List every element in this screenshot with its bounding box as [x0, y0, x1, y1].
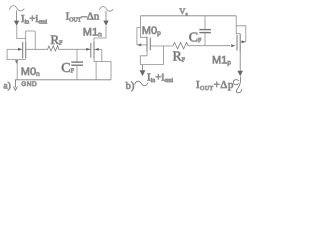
svg-text:RF: RF	[173, 48, 186, 63]
capacitor CF tap from rail (b)	[204, 16, 206, 29]
M0n bulk/source loop wire	[7, 49, 26, 59]
svg-text:Iin+iemi: Iin+iemi	[147, 71, 174, 84]
svg-text:M0n: M0n	[21, 66, 40, 78]
resistor RF (a) zigzag	[48, 46, 59, 51]
wire M0p drain down to input node	[140, 51, 147, 64]
AC source squiggle (input a)	[9, 6, 24, 11]
transistor M1n gate bar	[90, 43, 92, 58]
supply rail Vs (b)	[141, 15, 237, 17]
AC script squiggle below output arrow (b)	[236, 77, 242, 93]
transistor M0p channel bar	[146, 37, 148, 52]
svg-text:IOUT+Δp: IOUT+Δp	[196, 79, 234, 92]
AC squiggle above output arrow (a)	[99, 7, 113, 12]
M0n bulk lead with NMOS arrow	[7, 48, 22, 50]
svg-text:RF: RF	[50, 32, 63, 47]
output current arrow IOUT-dn (a)	[105, 11, 107, 21]
wire gate bus M0n to RF	[26, 48, 48, 50]
transistor M1p channel bar	[239, 34, 241, 52]
M1p gate arrow (PMOS, pointing right)	[231, 44, 235, 47]
input node wire (b)	[140, 64, 163, 66]
svg-text:Vs: Vs	[179, 6, 187, 17]
svg-text:M1p: M1p	[212, 55, 231, 67]
capacitor CF bottom lead to gate bus (b)	[204, 33, 206, 46]
M1p bulk lead with PMOS arrow pointing right	[241, 41, 246, 43]
ground arrow symbol	[14, 80, 16, 88]
source current arrowhead M0n	[15, 60, 18, 63]
svg-text:GND: GND	[21, 81, 37, 88]
transistor M0n channel bar	[22, 42, 24, 59]
capacitor CF bottom lead to rail (a)	[76, 66, 78, 80]
diode-connect riser from bus to input node	[163, 46, 165, 65]
svg-text:M0p: M0p	[142, 25, 161, 37]
capacitor CF tap wire (a)	[76, 49, 78, 61]
wire M0n source down to ground rail	[16, 60, 18, 80]
M0p bulk lead with PMOS arrow pointing left	[137, 44, 147, 46]
transistor M1p gate bar	[236, 35, 238, 51]
output current arrow IOUT+dp (b)	[237, 71, 243, 77]
input current arrow Iin+iemi (a)	[16, 11, 18, 22]
M0p bulk loop wire to source	[137, 28, 141, 45]
svg-text:Iin+iemi: Iin+iemi	[21, 13, 48, 26]
gate bus M0p to RF (b)	[150, 45, 173, 47]
input current arrow Iin+iemi (b)	[142, 65, 144, 71]
capacitor CF plates (a)	[71, 61, 83, 63]
M0n drain-to-gate diode connection loop	[26, 31, 36, 49]
svg-text:M1n: M1n	[83, 26, 102, 38]
svg-text:CF: CF	[61, 61, 74, 76]
M1n bulk/source loop wire	[94, 49, 102, 61]
wire M1n source to rail	[102, 62, 111, 80]
M1p bulk loop wire to source	[236, 26, 246, 42]
M1n gate arrow (NMOS)	[86, 48, 90, 51]
transistor M1n channel bar	[93, 42, 95, 59]
transistor M0n gate bar	[25, 42, 27, 59]
wire M1p drain down to output arrow	[239, 52, 241, 72]
svg-text:IOUT–Δn: IOUT–Δn	[66, 11, 100, 24]
capacitor CF plates (b)	[199, 29, 211, 31]
gate bus RF to M1p (b)	[188, 45, 230, 47]
M1n bulk lead with NMOS arrow pointing left	[94, 48, 101, 50]
AC script squiggle below input arrow (b)	[135, 81, 148, 86]
wire input node to M0n drain	[17, 26, 26, 43]
wire M1p source up to rail	[236, 16, 240, 34]
wire M1n source down to rail	[95, 62, 97, 80]
ground rail (a)	[15, 79, 111, 81]
wire M0p source drop from rail	[141, 16, 148, 38]
transistor M0p gate bar	[149, 38, 151, 51]
wire M1n drain up to output node	[94, 26, 106, 42]
svg-text:a): a)	[3, 81, 10, 92]
svg-text:b): b)	[126, 81, 135, 92]
resistor RF (b) zigzag	[173, 43, 188, 49]
wire gate bus RF to M1n	[59, 48, 91, 50]
